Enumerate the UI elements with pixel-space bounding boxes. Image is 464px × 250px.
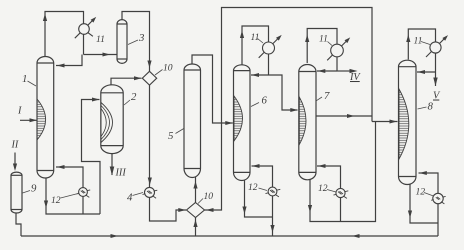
arrow left reflux into column 6 — [252, 73, 260, 77]
wire: column 8 overhead riser — [408, 29, 435, 72]
arrow right into vessel 2 — [92, 98, 100, 102]
wire: reboiler 12 riser to column 7 — [317, 166, 341, 222]
arrow left into diamond 10b — [206, 208, 214, 212]
condenser 11 of column 1 — [75, 17, 96, 38]
svg-text:10: 10 — [204, 191, 214, 202]
arrow left reflux into column 7 — [318, 69, 326, 73]
arrow down product V — [433, 78, 437, 87]
arrow right on condensate to drum 3 — [103, 53, 111, 57]
svg-text:V: V — [433, 91, 441, 102]
svg-text:11: 11 — [414, 36, 423, 47]
leader line label 3 — [128, 40, 138, 45]
arrow left reboiler vapor into column 1 — [57, 165, 65, 169]
wire: product IV draw — [337, 70, 351, 72]
wire: column 7 reflux return — [317, 70, 337, 72]
wire: feed II into vessel 9 — [14, 153, 16, 169]
leader line label 12b — [259, 188, 268, 191]
svg-text:I: I — [17, 106, 22, 117]
wire: column 8 bottoms to reboiler header — [410, 185, 438, 224]
wire: column 1 overhead to condenser — [45, 12, 84, 57]
svg-text:11: 11 — [319, 34, 328, 45]
wire: diamond 10b to column 5 bottom — [195, 176, 197, 203]
arrow down column 6 purge — [270, 225, 274, 233]
condenser 11 of column 7 — [327, 37, 350, 60]
wire: feed I into column 1 — [20, 119, 37, 121]
arrow up on column 6 riser — [240, 31, 244, 39]
arrow right into column 6 feed — [225, 121, 233, 125]
leader line label 12a — [61, 194, 79, 199]
wire: column 5 overhead to column 6 feed — [192, 55, 233, 123]
svg-text:12: 12 — [416, 187, 426, 198]
wire: vessel 9 outlet — [16, 213, 21, 236]
pump 12 of column 1 — [77, 188, 91, 198]
svg-text:8: 8 — [428, 101, 434, 113]
pump 12 of column 7 — [334, 188, 349, 198]
wire: product V draw — [435, 72, 437, 86]
arrow left reboiler vapor into column 6 — [252, 164, 260, 168]
arrow up into diamond 10b bottom — [193, 220, 197, 228]
column 5 — [184, 64, 201, 178]
wire: drum 3 top to diamond 10a — [122, 12, 150, 72]
wire: column 6 distillate to column 7 feed — [269, 75, 298, 110]
svg-text:5: 5 — [168, 130, 174, 142]
svg-text:10: 10 — [163, 63, 173, 74]
tube bundle in vessel 2 — [101, 103, 113, 143]
wire: vessel 2 bottoms to III — [111, 154, 113, 175]
svg-text:1: 1 — [22, 73, 27, 85]
wire: pump 4 outlet to diamond 10b — [150, 197, 187, 221]
arrow down column 1 bottoms — [44, 201, 48, 209]
arrow right on bottom header left — [111, 234, 119, 238]
arrow right on column 7 side draw — [347, 114, 355, 118]
arrow down column 7 bottoms — [308, 205, 312, 213]
leader line label 7 — [316, 97, 322, 101]
diamond 10a (mixer) — [142, 71, 156, 85]
arrow up into column 5 bottom — [193, 181, 197, 189]
leader line label 1 — [28, 81, 37, 86]
arrow down product III — [110, 167, 115, 176]
arrow down feed II — [13, 164, 17, 172]
packing lens column 8 — [399, 89, 409, 159]
arrow right into column 8 feed — [390, 120, 398, 124]
svg-text:II: II — [11, 140, 19, 151]
leader line label 11b — [258, 39, 264, 44]
arrow up on column 8 riser — [406, 35, 410, 43]
condenser 11 of column 6 — [259, 35, 282, 58]
leader line label 10b — [198, 199, 203, 204]
arrow down column 8 bottoms — [408, 211, 412, 219]
leader line label 5 — [176, 129, 184, 134]
arrow right into diamond 10b — [178, 208, 186, 212]
wire: long bottom header — [21, 235, 438, 237]
column 7 — [299, 65, 316, 180]
leader line label 11d — [421, 42, 430, 45]
leader line label 10a — [155, 70, 163, 76]
svg-text:9: 9 — [31, 183, 37, 195]
vessel 2 — [101, 85, 123, 154]
wire: condensate to drum 3 — [84, 54, 118, 56]
wire: column 6 reflux return — [251, 74, 269, 76]
svg-text:7: 7 — [324, 90, 330, 102]
wire: column 8 purge to bottom header — [437, 223, 439, 236]
svg-text:6: 6 — [262, 95, 268, 107]
arrow up on column 1 overhead — [43, 14, 47, 22]
svg-text:2: 2 — [131, 91, 137, 103]
pump 12 of column 8 — [431, 193, 445, 204]
svg-text:12: 12 — [318, 183, 328, 194]
arrow down into pump 4 — [148, 178, 152, 186]
wire: header to vessel 2 feed — [82, 100, 101, 215]
column 1 — [37, 57, 54, 179]
svg-text:11: 11 — [251, 32, 260, 43]
arrow up on column 7 riser — [305, 35, 309, 43]
arrow right product IV — [350, 69, 358, 73]
pump 4 — [143, 187, 158, 198]
wire: column 7 side draw — [316, 115, 372, 117]
arrow down column 6 bottoms — [242, 207, 246, 215]
wire: top header from diamond 10b to column 8 feed riser — [205, 8, 373, 211]
wire: column 7 bottoms header — [310, 122, 376, 222]
wire: reboiler 12 riser to column 8 — [419, 173, 439, 223]
packing lens column 7 — [299, 97, 306, 145]
wire: reboiler 12 riser to column 6 — [252, 166, 273, 217]
leader line label 12e — [424, 193, 434, 197]
column 8 — [399, 60, 417, 184]
arrow left reboiler vapor into column 8 — [419, 171, 427, 175]
drum 3 — [117, 20, 127, 64]
wire: reboiler 12 riser to column 1 — [56, 167, 83, 214]
leader line label 2 — [124, 100, 130, 105]
wire: vessel 2 top to diamond 10a — [111, 78, 142, 85]
wire: column 7 overhead riser — [307, 29, 337, 72]
arrow left reflux into column 1 — [57, 64, 65, 68]
svg-text:IV: IV — [349, 72, 361, 83]
arrow right feed I — [30, 118, 38, 122]
pump 12 of column 6 — [266, 187, 281, 197]
vessel 9 — [11, 172, 22, 213]
leader line label 4 — [133, 193, 144, 196]
wire: column 8 feed — [372, 121, 398, 123]
wire: column 6 overhead riser — [242, 26, 269, 75]
arrow left reflux into column 8 — [418, 70, 426, 74]
wire: diamond 10a to pump 4 — [149, 85, 151, 187]
arrow down into diamond 10a — [147, 61, 151, 69]
wire: reflux branch to column 1 — [56, 55, 82, 66]
svg-text:3: 3 — [138, 32, 145, 44]
wire: column 6 bottoms to reboiler header — [245, 181, 273, 218]
svg-text:12: 12 — [51, 195, 61, 206]
wire: column 1 bottoms to header — [46, 178, 100, 214]
arrow right into diamond 10a — [134, 76, 142, 80]
wire: column 6 purge to bottom header — [272, 217, 274, 236]
packing lens column 6 — [234, 96, 243, 141]
condenser 11 of column 8 — [426, 35, 448, 57]
svg-text:12: 12 — [248, 182, 258, 193]
leader line label 6 — [251, 103, 259, 107]
arrow left reboiler vapor into column 7 — [318, 164, 326, 168]
leader line label 12c — [327, 190, 336, 193]
leader line label 9 — [23, 191, 31, 194]
arrow left on bottom header right — [352, 234, 360, 238]
wire: column 8 reflux return — [417, 71, 436, 73]
packing lens column 1 — [37, 99, 46, 140]
diamond 10b (mixer) — [187, 203, 205, 218]
leader line label 11c — [328, 42, 333, 46]
column 6 — [234, 65, 251, 181]
svg-text:III: III — [115, 168, 127, 179]
svg-text:4: 4 — [127, 192, 133, 204]
leader line label 8 — [418, 107, 427, 109]
wire: bottom riser into diamond 10b — [195, 218, 197, 237]
svg-text:11: 11 — [96, 34, 105, 45]
arrow right into column 7 feed — [290, 108, 298, 112]
